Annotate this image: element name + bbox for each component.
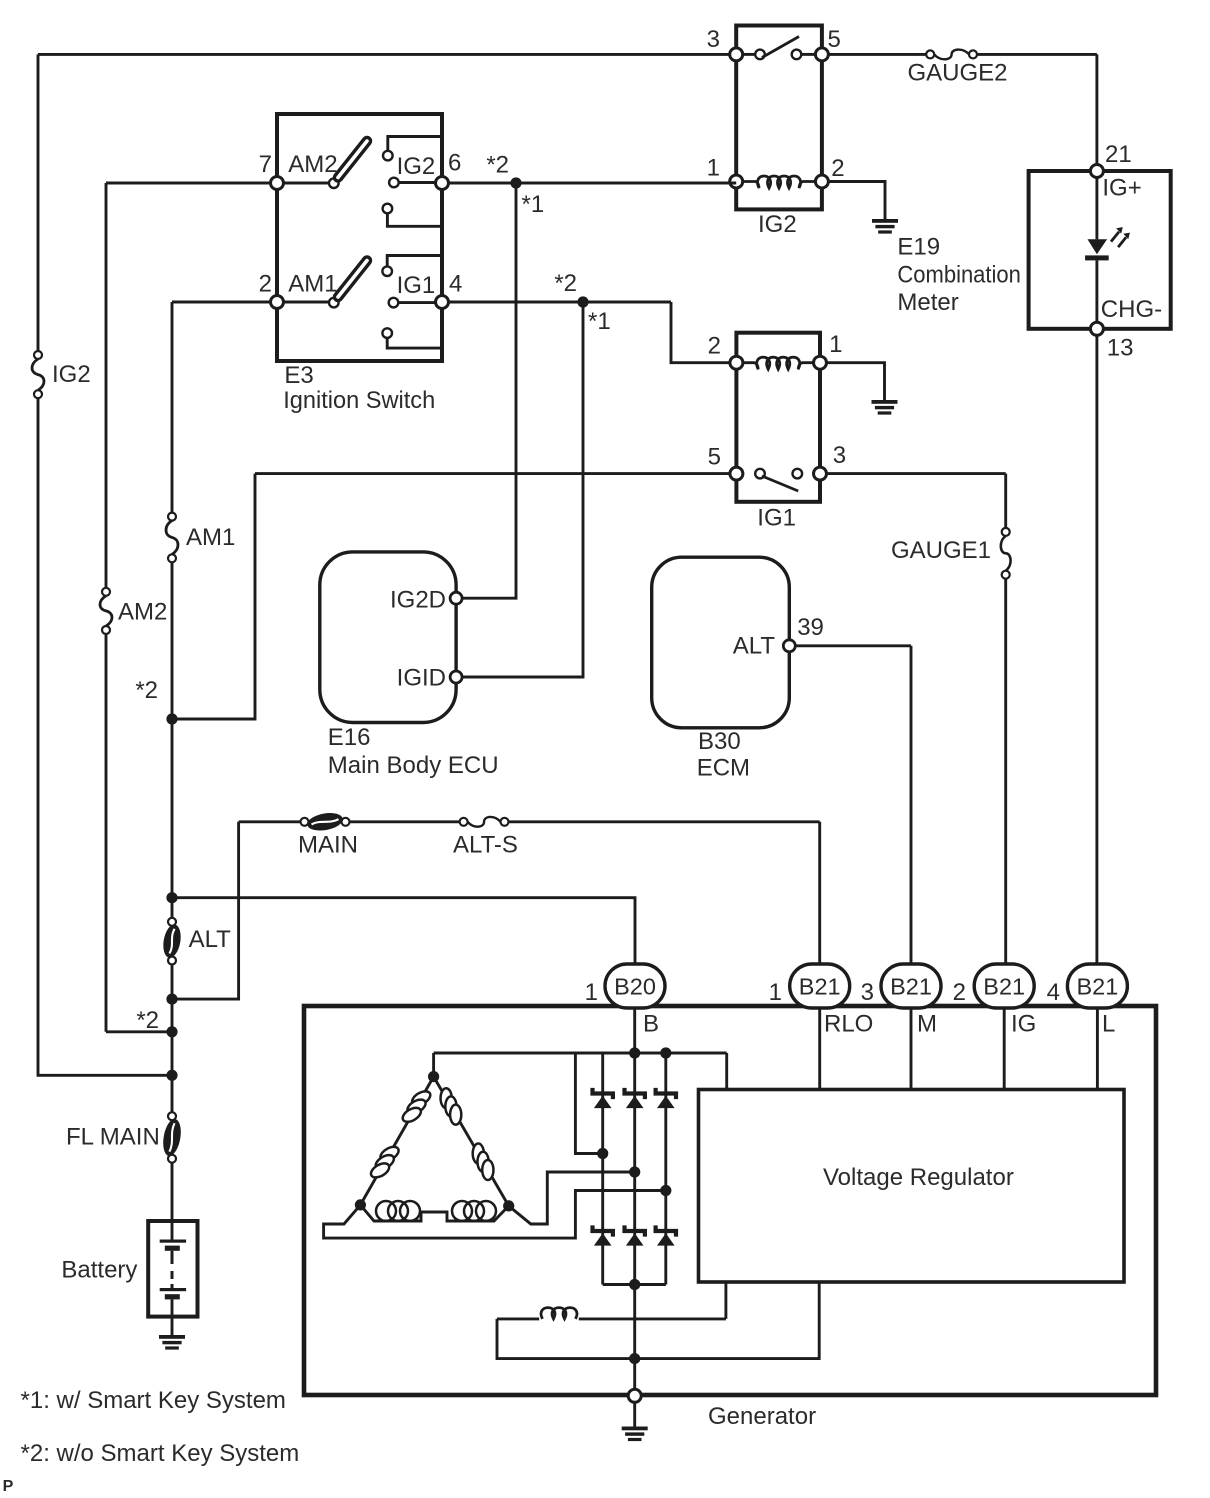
svg-text:*1: w/ Smart Key System: *1: w/ Smart Key System [21, 1387, 286, 1414]
label 7 [259, 151, 272, 178]
svg-text:AM2: AM2 [288, 151, 337, 178]
svg-text:2: 2 [259, 271, 272, 298]
svg-text:B20: B20 [614, 974, 656, 1000]
LED arrows [1111, 227, 1130, 247]
fuse AM2 [100, 588, 112, 634]
label 1 (relay IG1) [829, 331, 842, 358]
switch AM2 pivot contact [329, 178, 339, 188]
label *2 (pin6 row) [486, 152, 509, 179]
svg-text:RLO: RLO [824, 1011, 873, 1038]
connector oval B21 pin2 IG [974, 964, 1034, 1008]
wire phase C tap [324, 1191, 666, 1239]
relay IG2 pin 2 [815, 175, 828, 188]
svg-text:IG2: IG2 [758, 211, 797, 238]
svg-text:Combination: Combination [897, 261, 1021, 288]
wire pin6 row [449, 182, 737, 185]
junction *2 (AM1 line y=719) [166, 713, 177, 724]
diode D4 (lower col1) [593, 1225, 613, 1245]
fuse ALT-S [460, 817, 509, 827]
label IG2 (switch) [397, 153, 436, 180]
wire MAIN riser [172, 822, 239, 999]
pin IG2D [450, 592, 462, 604]
svg-text:39: 39 [797, 614, 824, 641]
battery plates [160, 1240, 186, 1300]
wire MAIN line left [239, 820, 301, 823]
label IG+ [1102, 174, 1141, 201]
label *2 (y=698) [135, 677, 158, 704]
meter internal wire [1095, 178, 1098, 323]
svg-text:L: L [1102, 1011, 1115, 1038]
relay IG1 pin 3 [814, 467, 827, 480]
junction rotor/ground column [629, 1353, 640, 1364]
label RLO [824, 1011, 873, 1038]
label 1 (B21 RLO) [769, 979, 782, 1006]
switch IG1 contacts [382, 266, 398, 338]
svg-text:E3: E3 [284, 362, 313, 389]
junction MAIN tap (y=999.1) [166, 994, 177, 1005]
label IGID [397, 665, 446, 692]
junction stator apex [428, 1071, 439, 1082]
wire stator apex to bus [432, 1053, 435, 1077]
svg-text:*1: *1 [522, 191, 545, 218]
label AM1 (switch) [288, 271, 337, 298]
junction left-line join (y=1075.3) [166, 1070, 177, 1081]
junction stator left vertex [355, 1199, 366, 1210]
relay IG1 contacts [755, 469, 802, 479]
wire battery+ top feed (left vertical x=38 and top bus y=54.4) [38, 54, 736, 1075]
label IG1 (switch) [397, 272, 436, 299]
ground (relay IG2) [872, 219, 898, 234]
label Combination [897, 261, 1021, 288]
label *1 (pin4 drop) [588, 308, 611, 335]
fuse GAUGE2 [926, 50, 977, 60]
svg-text:ALT: ALT [189, 926, 232, 953]
connector oval B21 pin4 L [1067, 964, 1127, 1008]
ground (battery) [159, 1335, 185, 1350]
svg-text:GAUGE1: GAUGE1 [891, 537, 991, 564]
label Generator [708, 1403, 816, 1430]
svg-text:IG+: IG+ [1102, 174, 1141, 201]
switch IG2 contact stubs [387, 137, 440, 227]
wire diode column 3 [664, 1053, 667, 1285]
wire relay IG2 pin2 to ground [828, 182, 885, 220]
stator coil loops left side [369, 1088, 433, 1180]
svg-text:IG1: IG1 [397, 272, 436, 299]
label 13 [1107, 335, 1134, 362]
footnote *2 [21, 1440, 300, 1467]
diode D5 (lower col2) [625, 1225, 645, 1245]
wire ALT-S to RLO oval [509, 822, 820, 964]
svg-text:B30: B30 [698, 728, 741, 755]
label 2 (pin2) [259, 271, 272, 298]
wire AM1 line to ALT fuse [171, 563, 174, 918]
svg-text:P: P [3, 1478, 14, 1495]
pin 4 [436, 296, 449, 309]
label IG2D [390, 587, 446, 614]
svg-text:B21: B21 [983, 974, 1025, 1000]
wire pin2 to AM1 pivot [284, 301, 331, 304]
svg-text:4: 4 [1047, 979, 1060, 1006]
generator box [304, 1006, 1156, 1395]
label 5 (relay IG1) [708, 444, 721, 471]
ground (relay IG1) [872, 400, 898, 415]
wire phase B tap [509, 1172, 635, 1224]
svg-text:IG1: IG1 [757, 505, 796, 532]
stator coil loops bottom side [376, 1201, 496, 1221]
label 6 [448, 150, 461, 177]
wire to B20 oval [172, 898, 635, 964]
label 5 (relay IG2) [828, 26, 841, 53]
wire *1 drop to IGID [463, 302, 583, 677]
label ECM [697, 754, 750, 781]
svg-text:M: M [917, 1011, 937, 1038]
label IG1 relay [757, 505, 796, 532]
label M [917, 1011, 937, 1038]
page mark P [3, 1478, 14, 1495]
svg-text:Ignition Switch: Ignition Switch [283, 387, 435, 414]
svg-text:AM2: AM2 [118, 599, 167, 626]
pin ALT 39 [783, 640, 795, 652]
ignition switch E3 box [277, 114, 442, 361]
label GAUGE2 [908, 60, 1008, 87]
svg-text:FL MAIN: FL MAIN [66, 1123, 160, 1150]
relay IG1 box [736, 333, 820, 502]
svg-text:5: 5 [708, 444, 721, 471]
label 1 (B20) [585, 979, 598, 1006]
combination meter box [1029, 171, 1171, 329]
label CHG- [1101, 296, 1162, 323]
ECM B30 box [652, 557, 790, 728]
diode D2 (upper col2) [625, 1088, 645, 1108]
label GAUGE1 [891, 537, 991, 564]
svg-text:Meter: Meter [897, 289, 958, 316]
relay IG1 pin 5 [730, 467, 743, 480]
svg-text:ALT-S: ALT-S [453, 831, 518, 858]
label 3 (relay IG2) [707, 26, 720, 53]
wire ALT line segment [171, 965, 174, 1112]
switch AM2 blade [338, 141, 367, 178]
pin IGID [450, 671, 462, 683]
wire GAUGE2 to meter pin21 [977, 54, 1097, 164]
junction *2 (pin4 row) [577, 296, 588, 307]
switch AM1 blade [338, 261, 367, 298]
svg-text:ALT: ALT [733, 633, 776, 660]
label IG2 relay [758, 211, 797, 238]
svg-text:1: 1 [707, 154, 720, 181]
meter pin 13 [1090, 322, 1103, 335]
svg-text:*2: *2 [486, 152, 509, 179]
wire battery to ground [171, 1299, 174, 1335]
wire GAUGE1 to IG oval [1004, 579, 1007, 964]
wire *2 branch to IG1 pin5 row [172, 474, 255, 719]
generator ground pin [628, 1389, 641, 1402]
pin 7 [271, 177, 284, 190]
wire MAIN to ALT-S [350, 820, 460, 823]
svg-text:IG2: IG2 [52, 361, 91, 388]
wire B+ top bus [434, 1053, 727, 1090]
junction top bus col2 [629, 1047, 640, 1058]
svg-text:2: 2 [831, 155, 844, 182]
svg-text:IG: IG [1011, 1011, 1036, 1038]
wire pin7 to AM2 pivot [284, 182, 331, 185]
junction B+ tap (y=897.7) [166, 892, 177, 903]
switch IG2 contacts [383, 151, 399, 214]
relay IG1 blade [762, 476, 798, 491]
svg-text:MAIN: MAIN [298, 831, 358, 858]
wire bottom bus [603, 1283, 666, 1286]
svg-text:IG2: IG2 [397, 153, 436, 180]
fusible link IG2 (left) [32, 351, 44, 398]
label 3 (B21 M) [861, 979, 874, 1006]
label Voltage Regulator [823, 1164, 1014, 1191]
relay IG1 coil [743, 357, 814, 369]
connector oval B21 pin3 M [881, 964, 941, 1008]
wire AM2 line down to junction [106, 634, 168, 1032]
label MAIN [298, 831, 358, 858]
relay IG1 pin 2 [730, 356, 743, 369]
label *2 (y=1028) [136, 1007, 159, 1034]
label 39 [797, 614, 824, 641]
svg-text:B: B [643, 1011, 659, 1038]
switch AM1 pivot contact [329, 298, 339, 308]
relay IG2 blade [762, 37, 799, 58]
svg-text:6: 6 [448, 150, 461, 177]
relay IG2 coil [743, 176, 816, 188]
label IG (terminal) [1011, 1011, 1036, 1038]
voltage regulator box [699, 1090, 1125, 1283]
label Main Body ECU [328, 752, 499, 779]
wire RLO column [818, 1008, 821, 1090]
svg-text:2: 2 [708, 333, 721, 360]
junction phase A col1 [597, 1148, 608, 1159]
svg-text:13: 13 [1107, 335, 1134, 362]
svg-text:5: 5 [828, 26, 841, 53]
main body ECU E16 box [320, 552, 456, 723]
svg-text:3: 3 [707, 26, 720, 53]
label AM1 fuse [186, 524, 235, 551]
fusible link ALT [161, 918, 183, 965]
svg-text:1: 1 [829, 331, 842, 358]
label ALT-S [453, 831, 518, 858]
svg-text:*2: *2 [136, 1007, 159, 1034]
wire generator ground [633, 1402, 636, 1426]
label E3 [284, 362, 313, 389]
relay IG2 box [736, 26, 822, 210]
svg-text:Main Body ECU: Main Body ECU [328, 752, 499, 779]
wire rotor right leg [724, 1282, 727, 1319]
label 2 (relay IG1) [708, 333, 721, 360]
label 2 (relay IG2) [831, 155, 844, 182]
svg-text:B21: B21 [890, 974, 932, 1000]
pin 6 [436, 177, 449, 190]
svg-text:*1: *1 [588, 308, 611, 335]
wire *1 drop to IG2D [463, 183, 516, 598]
junction *2 (pin6 row) [510, 177, 521, 188]
junction stator right vertex [503, 1200, 514, 1211]
ground (generator) [622, 1427, 648, 1442]
wire ALT to M oval [795, 646, 911, 964]
wire IG column [1003, 1008, 1006, 1090]
pin 2 [271, 296, 284, 309]
svg-text:B21: B21 [1076, 974, 1118, 1000]
svg-text:CHG-: CHG- [1101, 296, 1162, 323]
label FL MAIN [66, 1123, 160, 1150]
label ALT (ECM) [733, 633, 776, 660]
label 3 (relay IG1) [833, 442, 846, 469]
svg-text:B21: B21 [799, 974, 841, 1000]
wire pin13 to L oval [1095, 335, 1098, 963]
label 2 (B21 IG) [953, 979, 966, 1006]
junction phase C col3 [660, 1185, 671, 1196]
junction phase B col2 [629, 1166, 640, 1177]
svg-text:Voltage Regulator: Voltage Regulator [823, 1164, 1014, 1191]
wire pin5 row [255, 472, 730, 475]
junction AM2 join (y=1031.8) [166, 1026, 177, 1037]
svg-text:AM1: AM1 [288, 271, 337, 298]
svg-text:*2: *2 [554, 270, 577, 297]
wire pin4 row [449, 302, 730, 363]
label E19 [897, 234, 940, 261]
diode D3 (upper col3) [656, 1088, 676, 1108]
svg-text:ECM: ECM [697, 754, 750, 781]
relay IG2 pin 1 [730, 175, 743, 188]
svg-text:E16: E16 [328, 724, 371, 751]
svg-text:3: 3 [833, 442, 846, 469]
svg-text:IGID: IGID [397, 665, 446, 692]
svg-text:3: 3 [861, 979, 874, 1006]
relay IG2 contacts [755, 50, 801, 60]
label AM2 (switch) [288, 151, 337, 178]
wire pin7 to AM2 fuse line [106, 183, 271, 588]
svg-text:IG2D: IG2D [390, 587, 446, 614]
connector oval B21 pin1 RLO [790, 964, 850, 1008]
wire pin5 to GAUGE2 [828, 53, 926, 56]
label E16 [328, 724, 371, 751]
svg-text:E19: E19 [897, 234, 940, 261]
relay IG1 pin 1 [814, 356, 827, 369]
wire M column [910, 1008, 913, 1090]
label Meter [897, 289, 958, 316]
wire diode column 1 [601, 1053, 604, 1285]
label B (terminal) [643, 1011, 659, 1038]
wire pin3 to GAUGE1 [827, 474, 1006, 528]
svg-text:21: 21 [1105, 141, 1132, 168]
svg-text:AM1: AM1 [186, 524, 235, 551]
fuse GAUGE1 [1001, 528, 1011, 579]
label IG2 fuse [52, 361, 91, 388]
label 4 (B21 L) [1047, 979, 1060, 1006]
label *2 (pin4 row) [554, 270, 577, 297]
label B30 [698, 728, 741, 755]
stator coil loops right side [441, 1088, 494, 1180]
wire diode column 2 (B) [633, 1008, 636, 1390]
svg-text:1: 1 [769, 979, 782, 1006]
svg-text:GAUGE2: GAUGE2 [908, 60, 1008, 87]
svg-text:*2: w/o Smart Key System: *2: w/o Smart Key System [21, 1440, 300, 1467]
connector oval B20 [605, 964, 665, 1008]
label 4 (E3) [449, 271, 462, 298]
relay IG2 pin 3 [730, 48, 743, 61]
rotor field coil [541, 1308, 577, 1319]
label *1 (pin6 drop) [522, 191, 545, 218]
meter pin 21 [1090, 165, 1103, 178]
svg-text:Generator: Generator [708, 1403, 816, 1430]
battery box [148, 1221, 197, 1317]
wire L column [1096, 1008, 1099, 1090]
svg-text:*2: *2 [135, 677, 158, 704]
label Battery [61, 1257, 137, 1284]
svg-text:4: 4 [449, 271, 462, 298]
wire phase A tap [575, 1053, 602, 1154]
relay IG2 contact row wire [744, 53, 815, 56]
fuse AM1 [166, 513, 178, 563]
label AM2 fuse [118, 599, 167, 626]
diode D1 (upper col1) [593, 1088, 613, 1108]
switch IG1 contact stubs [387, 256, 440, 349]
wire rotor line [497, 1282, 819, 1359]
wire pin2 to AM1 fuse [172, 302, 271, 512]
stator delta sides [360, 1077, 508, 1221]
label L (terminal) [1102, 1011, 1115, 1038]
wire relay IG1 pin1 to ground [827, 363, 885, 400]
fusible link MAIN [301, 811, 350, 834]
label 1 (relay IG2) [707, 154, 720, 181]
diode D6 (lower col3) [656, 1225, 676, 1245]
svg-text:1: 1 [585, 979, 598, 1006]
svg-text:Battery: Battery [61, 1257, 137, 1284]
wire to battery [171, 1163, 174, 1242]
label ALT fuse [189, 926, 232, 953]
svg-text:7: 7 [259, 151, 272, 178]
fusible link FL MAIN [161, 1112, 184, 1163]
junction bottom bus col2 [629, 1279, 640, 1290]
label Ignition Switch [283, 387, 435, 414]
footnote *1 [21, 1387, 286, 1414]
label 21 [1105, 141, 1132, 168]
junction top bus col3 [660, 1047, 671, 1058]
charge warning LED [1085, 239, 1109, 260]
relay IG2 pin 5 [815, 48, 828, 61]
svg-text:2: 2 [953, 979, 966, 1006]
